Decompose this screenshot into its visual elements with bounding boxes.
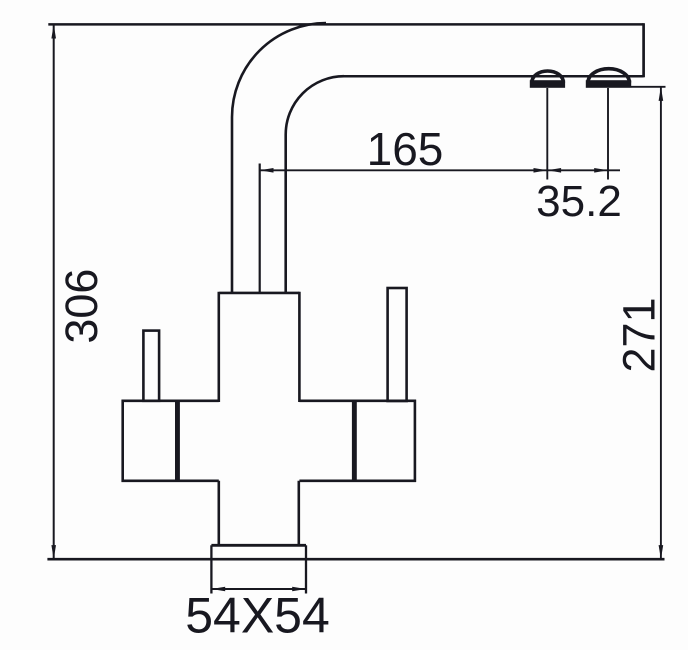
body right edge upper [298, 292, 301, 402]
countertop base line [47, 558, 664, 561]
svg-text:165: 165 [367, 123, 444, 175]
right handle bottom line [299, 479, 416, 482]
extension line from outlet 2 [607, 88, 609, 180]
extension line from outlet 1 [546, 88, 548, 180]
aerator outlet 1 cap [532, 71, 564, 83]
svg-text:35.2: 35.2 [536, 177, 622, 226]
svg-text:54X54: 54X54 [185, 588, 330, 644]
extension line from spout pipe centre [259, 164, 261, 293]
dimension line 271 (right vertical) [660, 87, 662, 559]
spout outer curve [232, 23, 326, 293]
svg-text:271: 271 [613, 297, 664, 372]
spout end cap [642, 23, 645, 77]
left handle bottom line [122, 479, 219, 482]
base flange right side / extension line [305, 545, 307, 593]
right handle right edge [414, 400, 417, 482]
dimension line 306 (left vertical) [53, 24, 55, 559]
spout bottom edge [344, 75, 644, 78]
dimension line 165 / 35.2 (horizontal) [260, 169, 620, 171]
left lever handle [143, 331, 159, 401]
body left edge upper [218, 292, 221, 402]
dimension line 54X54 [211, 588, 306, 590]
body top line [219, 292, 299, 295]
base flange left side / extension line [210, 545, 212, 593]
extension line from spout end to right dimension [631, 86, 666, 88]
base flange top [211, 544, 306, 547]
spout inner curve [286, 76, 344, 293]
aerator outlet 2 cap [588, 69, 629, 83]
right handle top line [299, 399, 416, 402]
right lever handle [388, 288, 407, 401]
body right edge lower [297, 481, 300, 546]
spout top edge / top extension line [48, 23, 643, 26]
right handle double line joint [352, 400, 357, 482]
body left edge lower [218, 481, 221, 546]
left handle double line joint [175, 400, 180, 482]
left handle left edge [121, 400, 124, 482]
svg-text:306: 306 [56, 269, 107, 344]
left handle top line [122, 399, 219, 402]
